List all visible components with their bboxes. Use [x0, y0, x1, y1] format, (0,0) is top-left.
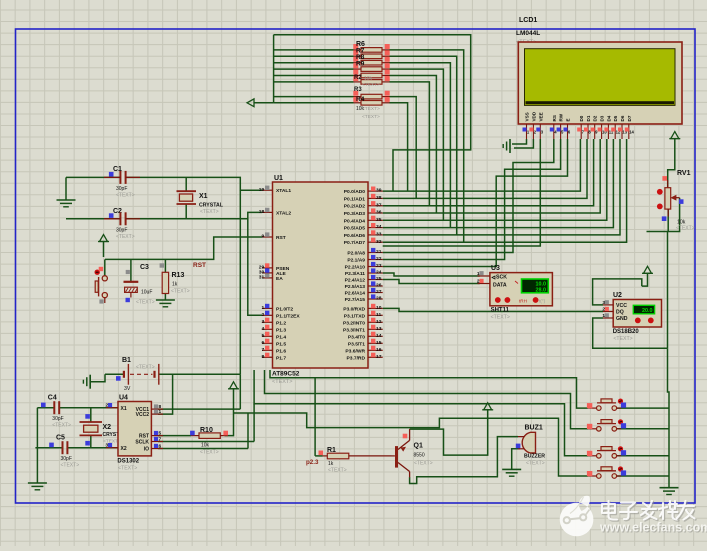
resistor R8 — [353, 57, 389, 65]
svg-text:DATA: DATA — [493, 283, 507, 289]
wire VCC to U2 VCC — [593, 279, 642, 305]
svg-text:P0.7/AD7: P0.7/AD7 — [344, 240, 365, 246]
svg-text:P1.5: P1.5 — [276, 341, 286, 347]
power U2 — [642, 266, 653, 273]
wire C2 to XTAL2 — [126, 212, 262, 218]
svg-text:35: 35 — [376, 217, 382, 223]
wire C3 top stub — [130, 259, 132, 281]
wire P0.3 row to LCD D3 — [383, 139, 601, 213]
wire IO column — [247, 413, 249, 449]
svg-text:VCC2: VCC2 — [136, 412, 150, 418]
wire X2 bottom stub — [90, 435, 92, 447]
svg-text:RST: RST — [193, 262, 206, 269]
svg-text:39: 39 — [376, 188, 382, 194]
svg-text:SCLK: SCLK — [135, 439, 149, 445]
svg-text:2: 2 — [477, 278, 480, 284]
wire R10 to VCC — [225, 389, 234, 436]
svg-text:1: 1 — [261, 305, 264, 311]
svg-text:2: 2 — [602, 307, 605, 313]
svg-text:7: 7 — [261, 347, 264, 353]
wire resistor row left 3 — [274, 68, 354, 70]
svg-text:10: 10 — [376, 305, 382, 311]
svg-text:9: 9 — [261, 234, 264, 240]
svg-text:34: 34 — [376, 224, 382, 230]
svg-text:U2: U2 — [613, 292, 622, 299]
svg-text:3: 3 — [602, 300, 605, 306]
resistor R5 — [353, 91, 389, 99]
wire R13 bottom stub — [164, 294, 166, 301]
wire P0.2 row to LCD D2 — [383, 139, 594, 206]
wire button3 scan line — [254, 370, 588, 456]
svg-text:P3.4/T0: P3.4/T0 — [348, 334, 365, 340]
wire gnd drop C1C2 — [65, 177, 67, 200]
ground R13 — [156, 300, 175, 307]
svg-text:<TEXT>: <TEXT> — [136, 365, 155, 371]
svg-text:DS18B20: DS18B20 — [613, 329, 640, 335]
svg-text:<TEXT>: <TEXT> — [116, 192, 135, 198]
svg-text:RV1: RV1 — [677, 170, 691, 177]
svg-text:EA: EA — [276, 276, 283, 282]
svg-text:7: 7 — [159, 437, 162, 443]
wire column A — [239, 190, 241, 374]
svg-text:P0.1/AD1: P0.1/AD1 — [344, 196, 365, 202]
resistor pack labels — [354, 41, 380, 120]
svg-text:31: 31 — [259, 275, 265, 281]
wire LCD E to P2.2 — [383, 139, 568, 267]
wire C2 left — [66, 218, 120, 220]
svg-text:1: 1 — [477, 271, 480, 277]
wire VCC to RV1 top — [668, 139, 675, 188]
wire U2 GND run — [593, 318, 668, 348]
ground LCD VSS — [503, 139, 510, 153]
crystal X1 — [177, 191, 224, 215]
svg-text:SHT11: SHT11 — [491, 308, 510, 314]
wire Q1 emitter to VCC — [410, 410, 488, 455]
svg-text:D7: D7 — [627, 115, 632, 121]
wire resistor row left 1 — [274, 55, 354, 57]
svg-text:D6: D6 — [620, 115, 625, 121]
svg-text:t(°): t(°) — [539, 298, 546, 303]
svg-text:2: 2 — [261, 312, 264, 318]
wire LCD VSS to ground — [512, 139, 527, 144]
svg-text:VEE: VEE — [538, 112, 543, 121]
svg-text:<TEXT>: <TEXT> — [676, 225, 695, 231]
push button key3 — [587, 446, 626, 458]
svg-text:P3.2/INT0: P3.2/INT0 — [343, 320, 365, 326]
svg-text:P1.4: P1.4 — [276, 334, 286, 340]
svg-text:X1: X1 — [121, 406, 127, 412]
watermark elecfans logo — [560, 496, 594, 537]
svg-text:P2.1/A9: P2.1/A9 — [347, 258, 365, 264]
wire button4 to trunk — [617, 475, 669, 477]
svg-text:P3.7/RD: P3.7/RD — [347, 355, 366, 361]
wire R pack to P0.5 — [390, 63, 451, 228]
svg-text:1: 1 — [602, 313, 605, 319]
wire RST to reset circuit — [105, 237, 262, 259]
svg-text:XTAL2: XTAL2 — [276, 210, 291, 216]
svg-text:SCK: SCK — [496, 274, 507, 280]
capacitor C3 — [124, 264, 155, 306]
wire R pack to P0.0 — [390, 103, 408, 191]
svg-text:14: 14 — [376, 333, 382, 339]
svg-text:P1.2: P1.2 — [276, 320, 286, 326]
svg-text:1k: 1k — [328, 461, 334, 467]
wire arrow feed — [254, 102, 274, 104]
svg-text:RS: RS — [552, 115, 557, 121]
svg-text:16: 16 — [376, 347, 382, 353]
wire resistor row left 2 — [274, 62, 354, 64]
ground XTAL — [57, 200, 76, 207]
wire C4C5 gnd column — [36, 408, 38, 483]
wire U4 SCLK row — [158, 441, 254, 443]
svg-text:26: 26 — [376, 283, 382, 289]
svg-text:BUZZER: BUZZER — [524, 454, 545, 460]
svg-text:R13: R13 — [172, 272, 185, 279]
wire buzzer to ground — [512, 449, 520, 470]
svg-text:C5: C5 — [56, 435, 65, 442]
svg-text:P2.3/A11: P2.3/A11 — [345, 271, 365, 277]
wire gnd trunk lower — [668, 348, 670, 488]
buzzer BUZ1 — [516, 425, 545, 467]
svg-text:GND: GND — [616, 316, 628, 322]
svg-text:30pF: 30pF — [116, 186, 127, 192]
wire C1 left — [66, 176, 120, 178]
svg-text:P2.6/A14: P2.6/A14 — [345, 291, 366, 297]
wire P0.4 row to LCD D4 — [383, 139, 607, 220]
svg-text:P3.6/WR: P3.6/WR — [345, 348, 365, 354]
svg-text:28.0: 28.0 — [536, 288, 547, 294]
crystal X2 — [80, 414, 126, 445]
svg-text:10k: 10k — [201, 443, 210, 449]
svg-text:P3.1/TXD: P3.1/TXD — [344, 313, 366, 319]
svg-text:<TEXT>: <TEXT> — [362, 106, 380, 112]
wire VCC jog U2 — [642, 274, 648, 287]
wire battery minus to ground — [90, 374, 105, 381]
svg-text:<TEXT>: <TEXT> — [200, 209, 219, 215]
wire button top stub — [104, 259, 106, 275]
capacitor C2 — [104, 208, 140, 240]
resistor R2 — [353, 70, 389, 78]
svg-text:P0.5/AD5: P0.5/AD5 — [344, 226, 365, 232]
wire P0.7 row to LCD D7 — [383, 139, 627, 242]
wire C4 left — [37, 407, 54, 409]
wire R pack to P0.7 — [390, 50, 464, 242]
svg-text:<TEXT>: <TEXT> — [362, 114, 380, 120]
resistor R9 — [353, 63, 389, 71]
svg-text:D4: D4 — [606, 115, 611, 121]
svg-text:23: 23 — [376, 263, 382, 269]
push button key2 — [587, 419, 626, 431]
ground battery — [83, 375, 90, 389]
svg-text:RW: RW — [559, 113, 564, 121]
svg-text:11: 11 — [376, 312, 381, 318]
svg-text:14: 14 — [629, 129, 634, 134]
svg-text:R9: R9 — [356, 61, 365, 68]
svg-text:U3: U3 — [491, 265, 500, 272]
potentiometer RV1 — [657, 170, 695, 231]
svg-text:8: 8 — [261, 354, 264, 360]
power Q1 — [482, 403, 493, 410]
svg-text:DQ: DQ — [616, 310, 624, 316]
svg-text:U1: U1 — [274, 175, 283, 182]
resistor R13 — [160, 263, 190, 294]
wire U4 RST to R10 — [158, 435, 191, 437]
wire LCD VDD stub — [514, 139, 533, 148]
wire resistor row left 4 — [274, 75, 354, 77]
svg-text:21: 21 — [376, 249, 382, 255]
wire P0.5 row to LCD D5 — [383, 139, 614, 228]
svg-text:D3: D3 — [600, 115, 605, 121]
wire U3 SCK row — [383, 273, 480, 276]
resistor R3 — [353, 76, 389, 84]
svg-text:VCC: VCC — [616, 303, 627, 309]
svg-text:10k: 10k — [364, 76, 373, 82]
svg-text:<TEXT>: <TEXT> — [61, 463, 80, 469]
svg-text:D5: D5 — [613, 115, 618, 121]
svg-text:U4: U4 — [119, 395, 128, 402]
svg-text:30pF: 30pF — [52, 416, 63, 422]
wire LCD VEE down — [383, 139, 541, 246]
svg-text:28: 28 — [376, 296, 382, 302]
wire P0.0 row to LCD D0 — [383, 139, 581, 191]
wire vcc to button — [103, 242, 105, 258]
wire P0.1 row to LCD D1 — [383, 139, 587, 198]
svg-text:12: 12 — [376, 319, 382, 325]
svg-text:<TEXT>: <TEXT> — [272, 379, 292, 385]
svg-text:13: 13 — [376, 326, 382, 332]
svg-text:<TEXT>: <TEXT> — [116, 234, 135, 240]
capacitor C1 — [104, 166, 140, 198]
svg-text:www.elecfans.com: www.elecfans.com — [599, 521, 707, 535]
terminal arrow P0 bus — [247, 99, 254, 107]
svg-text:<TEXT>: <TEXT> — [52, 423, 71, 429]
svg-text:10.0: 10.0 — [536, 281, 547, 287]
svg-text:<TEXT>: <TEXT> — [118, 466, 137, 472]
wire button1 scan line — [270, 370, 588, 408]
svg-text:37: 37 — [376, 202, 382, 208]
wire col A down to VCC1 — [239, 374, 241, 409]
svg-text:E: E — [566, 118, 571, 121]
ground C4C5 — [28, 483, 47, 490]
wire R13 top stub — [164, 259, 166, 272]
svg-text:P0.4/AD4: P0.4/AD4 — [344, 218, 365, 224]
svg-text:BUZ1: BUZ1 — [525, 425, 543, 432]
svg-text:P2.4/A12: P2.4/A12 — [345, 278, 366, 284]
power RV1 — [669, 132, 680, 139]
svg-text:P0.6/AD6: P0.6/AD6 — [344, 233, 365, 239]
svg-text:<TEXT>: <TEXT> — [200, 450, 219, 456]
svg-text:P0.3/AD3: P0.3/AD3 — [344, 211, 365, 217]
capacitor C4 — [41, 395, 71, 429]
svg-text:3: 3 — [261, 319, 264, 325]
svg-text:6: 6 — [261, 340, 264, 346]
svg-text:R4: R4 — [356, 96, 365, 103]
svg-text:C4: C4 — [48, 395, 57, 402]
svg-text:P0.0/AD0: P0.0/AD0 — [344, 189, 365, 195]
watermark text — [602, 501, 696, 521]
svg-text:X1: X1 — [199, 193, 208, 200]
ground buzzer — [502, 469, 521, 476]
svg-text:P1.0/T2: P1.0/T2 — [276, 306, 293, 312]
svg-text:<TEXT>: <TEXT> — [328, 468, 347, 474]
RTC U4 DS1302 — [105, 395, 163, 472]
svg-text:5: 5 — [159, 431, 162, 437]
battery B1 — [116, 357, 159, 392]
wire X1 top stub — [185, 177, 187, 191]
wire C4 to U4 X1 — [59, 407, 118, 409]
LCD LCD1 LM044L — [516, 17, 682, 139]
power reset — [98, 235, 109, 242]
wire LCD RW to P2.1 — [383, 139, 561, 260]
power R10 — [228, 382, 239, 389]
svg-text:IO: IO — [144, 446, 149, 452]
wire X2 top stub — [90, 408, 92, 422]
svg-text:15: 15 — [376, 340, 382, 346]
resistor R1 — [319, 447, 392, 474]
svg-text:<TEXT>: <TEXT> — [491, 315, 510, 321]
svg-text:22: 22 — [376, 256, 382, 262]
svg-text:25: 25 — [376, 276, 382, 282]
svg-text:P2.2/A10: P2.2/A10 — [345, 265, 366, 271]
svg-text:27: 27 — [376, 289, 382, 295]
svg-text:18: 18 — [259, 209, 265, 215]
svg-text:<TEXT>: <TEXT> — [136, 300, 155, 306]
svg-text:D0: D0 — [579, 115, 584, 121]
wire RV1 wiper down — [647, 198, 680, 232]
svg-text:8550: 8550 — [414, 453, 425, 459]
svg-text:<TEXT>: <TEXT> — [414, 461, 433, 467]
svg-text:10uF: 10uF — [141, 290, 152, 296]
wire button4 scan line — [234, 413, 589, 476]
wire VCC trunk vertical — [273, 35, 275, 103]
wire R1 feed — [314, 378, 316, 456]
wire button2 scan line — [265, 370, 589, 429]
svg-text:VSS: VSS — [525, 112, 530, 121]
wire resistor row left 5 — [274, 81, 354, 83]
wire resistor row left 7 — [274, 102, 354, 104]
svg-text:2: 2 — [105, 403, 108, 409]
svg-text:P2.0/A8: P2.0/A8 — [347, 251, 365, 257]
svg-text:R2: R2 — [354, 75, 362, 81]
wire SCLK column — [253, 404, 255, 442]
ground buttons — [660, 488, 679, 495]
svg-text:P2.5/A13: P2.5/A13 — [345, 284, 366, 290]
svg-text:3: 3 — [105, 443, 108, 449]
wire LCD RS to P2.0 — [383, 139, 554, 253]
svg-text:<TEXT>: <TEXT> — [613, 336, 632, 342]
svg-text:P1.3: P1.3 — [276, 327, 286, 333]
wire battery row right — [173, 373, 241, 375]
svg-text:24: 24 — [376, 270, 382, 276]
svg-text:1: 1 — [159, 409, 162, 415]
svg-text:D1: D1 — [586, 115, 591, 121]
svg-text:AT89C52: AT89C52 — [272, 371, 300, 378]
capacitor C5 — [49, 435, 79, 469]
transistor Q1 — [392, 429, 433, 477]
wire resistor row left 6 — [274, 96, 354, 98]
sensor U2 DS18B20 — [602, 292, 661, 342]
svg-text:DS1302: DS1302 — [117, 459, 139, 465]
svg-text:RST: RST — [276, 235, 286, 241]
svg-text:1k: 1k — [172, 282, 178, 288]
svg-text:B1: B1 — [122, 357, 131, 364]
svg-text:32: 32 — [376, 239, 382, 245]
svg-text:P1.6: P1.6 — [276, 348, 286, 354]
wire column B to P1.1 — [248, 219, 262, 315]
sensor U3 SHT11 — [477, 265, 553, 321]
svg-text:P2.7/A15: P2.7/A15 — [345, 297, 366, 303]
resistor R6 — [353, 44, 389, 52]
wire battery left — [105, 373, 124, 375]
svg-text:38: 38 — [376, 195, 382, 201]
wire button3 to trunk — [617, 455, 669, 457]
svg-text:tRH: tRH — [519, 298, 527, 303]
svg-text:36: 36 — [376, 210, 382, 216]
svg-text:P1.7: P1.7 — [276, 355, 286, 361]
wire R pack to P0.2 — [390, 82, 430, 206]
svg-text:20.0: 20.0 — [642, 308, 653, 314]
wire P0.6 row to LCD D6 — [383, 139, 620, 235]
push button reset — [95, 267, 108, 304]
svg-text:6: 6 — [159, 444, 162, 450]
svg-text:XTAL1: XTAL1 — [276, 188, 291, 194]
svg-text:5: 5 — [261, 333, 264, 339]
wire C1 to XTAL1 — [126, 177, 262, 190]
svg-text:33: 33 — [376, 232, 382, 238]
svg-text:P3.5/T1: P3.5/T1 — [348, 341, 365, 347]
svg-text:p2.3: p2.3 — [306, 459, 319, 466]
wire R pack to P0.6 — [390, 56, 457, 235]
svg-text:30pF: 30pF — [116, 227, 127, 233]
wire RV1 gnd trunk upper — [667, 232, 669, 349]
svg-text:19: 19 — [259, 187, 265, 193]
wire R pack to P0.3 — [390, 76, 437, 214]
svg-text:<TEXT>: <TEXT> — [362, 82, 380, 88]
wire resistor row left 0 — [274, 49, 354, 51]
microcontroller U1 AT89C52 — [259, 175, 383, 385]
svg-text:CRYSTAL: CRYSTAL — [199, 203, 224, 209]
push button key4 — [587, 466, 626, 478]
wire R pack to P0.1 — [390, 97, 417, 199]
wire top row to P0.0 — [274, 35, 471, 191]
resistor R10 — [190, 427, 228, 456]
svg-text:VDD: VDD — [531, 111, 536, 121]
svg-text:P3.0/RXD: P3.0/RXD — [343, 306, 365, 312]
svg-text:<TEXT>: <TEXT> — [526, 461, 545, 467]
svg-text:4: 4 — [261, 326, 264, 332]
wire U4 VCC1 row — [158, 408, 240, 410]
wire U3 DATA row — [383, 280, 480, 284]
svg-text:P1.1/T2EX: P1.1/T2EX — [276, 313, 300, 319]
wire X1 bottom stub — [185, 204, 187, 219]
wire button2 to trunk — [617, 428, 669, 430]
wire C5 to U4 X2 — [67, 447, 118, 449]
svg-text:Q1: Q1 — [414, 443, 423, 450]
wire U2 DQ long row — [383, 308, 603, 311]
svg-text:LCD1: LCD1 — [519, 17, 537, 24]
svg-text:<TEXT>: <TEXT> — [171, 289, 190, 295]
push button key1 — [587, 399, 626, 411]
svg-text:3V: 3V — [124, 386, 131, 392]
svg-text:P0.2/AD2: P0.2/AD2 — [344, 204, 365, 210]
wire Q1 collector to buzzer — [410, 437, 518, 484]
svg-text:LM044L: LM044L — [516, 30, 540, 37]
wire to R1 — [315, 455, 322, 457]
svg-text:C3: C3 — [140, 264, 149, 271]
wire R pack to P0.4 — [390, 69, 444, 220]
resistor R4 — [353, 97, 389, 105]
resistor R7 — [353, 50, 389, 58]
